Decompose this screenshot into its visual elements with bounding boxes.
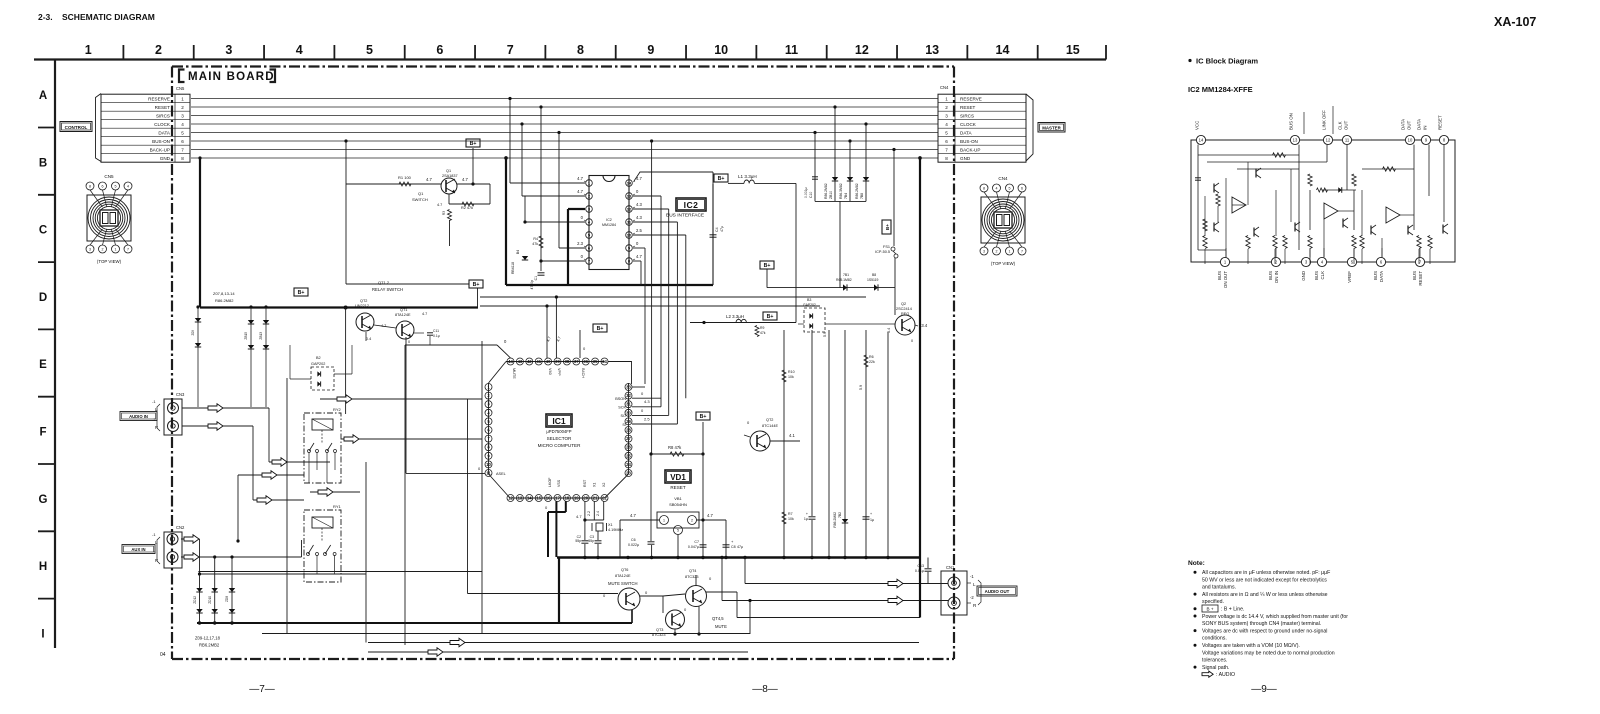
svg-text:R86.2M82: R86.2M82 [215, 298, 234, 303]
svg-text:OUT: OUT [1344, 120, 1349, 130]
svg-text:1: 1 [945, 96, 948, 101]
svg-text:2.2: 2.2 [587, 511, 591, 516]
svg-text:5.9: 5.9 [859, 385, 863, 390]
svg-text:: AUDIO: : AUDIO [1216, 672, 1235, 678]
svg-text:VD1: VD1 [670, 473, 686, 482]
svg-text:R3: R3 [442, 211, 446, 215]
svg-text:specified.: specified. [1202, 599, 1224, 605]
svg-text:8: 8 [945, 156, 948, 161]
svg-text:I: I [41, 628, 44, 640]
svg-text:21: 21 [593, 496, 598, 501]
svg-text:GND: GND [160, 156, 171, 161]
svg-text:SELECTOR: SELECTOR [547, 436, 572, 441]
svg-text:AUDIO OUT: AUDIO OUT [985, 589, 1010, 594]
svg-text:8TC323: 8TC323 [685, 575, 699, 579]
svg-text:14: 14 [527, 496, 532, 501]
svg-text:IN: IN [1423, 126, 1428, 130]
svg-text:RB4118: RB4118 [511, 262, 515, 274]
svg-text:B+: B+ [700, 414, 707, 420]
svg-text:47μ: 47μ [720, 226, 724, 232]
svg-text:—7—: —7— [249, 684, 275, 695]
svg-text:11: 11 [486, 471, 491, 476]
svg-text:SI: SI [622, 423, 626, 427]
svg-text:Voltage variations may be: Voltage variations may be noted due to n… [1202, 650, 1335, 656]
svg-text:IC2: IC2 [684, 200, 699, 210]
svg-text:DATA: DATA [1401, 119, 1406, 130]
svg-text:1: 1 [115, 247, 117, 251]
svg-text:R86.3M82: R86.3M82 [839, 183, 843, 199]
svg-text:CLK: CLK [1338, 121, 1343, 130]
svg-text:RESET: RESET [960, 105, 976, 110]
svg-text:3: 3 [983, 249, 985, 253]
svg-text:BUS-ON: BUS-ON [960, 139, 978, 144]
svg-text:MASTER: MASTER [1042, 126, 1061, 131]
svg-text:B8: B8 [872, 273, 876, 277]
svg-text:0: 0 [408, 340, 410, 344]
svg-text:4.7: 4.7 [437, 203, 442, 207]
svg-text:SIRCS: SIRCS [960, 113, 974, 118]
svg-text:20: 20 [583, 496, 588, 501]
svg-text:B: B [39, 157, 47, 169]
svg-text:RY2: RY2 [333, 407, 341, 412]
svg-text:2: 2 [996, 249, 998, 253]
svg-text:4.1: 4.1 [789, 433, 795, 438]
svg-text:Note:: Note: [1188, 560, 1205, 567]
svg-text:QT2: QT2 [360, 299, 367, 303]
svg-text:R8 47k: R8 47k [668, 445, 682, 450]
svg-text:BUS: BUS [1373, 271, 1378, 280]
svg-text:22k: 22k [869, 360, 875, 364]
svg-text:2: 2 [945, 105, 948, 110]
svg-text:—9—: —9— [1251, 684, 1277, 695]
svg-text:32: 32 [626, 393, 631, 398]
svg-text:+: + [870, 512, 872, 516]
svg-text:BUS INTERFACE: BUS INTERFACE [666, 213, 704, 219]
svg-text:0.1μ: 0.1μ [433, 334, 440, 338]
svg-text:CN4: CN4 [998, 176, 1008, 181]
svg-text:SCHEMATIC DIAGRAM: SCHEMATIC DIAGRAM [62, 12, 155, 22]
svg-text:10: 10 [627, 232, 632, 237]
svg-text:SCK: SCK [618, 406, 626, 410]
svg-text:22: 22 [602, 496, 607, 501]
svg-text:5: 5 [677, 529, 679, 533]
svg-text:RB6.2MB2: RB6.2MB2 [199, 643, 220, 648]
svg-text:ZB10: ZB10 [829, 191, 833, 199]
svg-text:RESET: RESET [1418, 271, 1423, 286]
svg-text:5: 5 [181, 130, 184, 135]
svg-text:RESET: RESET [670, 485, 686, 490]
svg-text:3: 3 [89, 247, 91, 251]
svg-text:SWITCH: SWITCH [412, 197, 428, 202]
svg-text:R2 47k: R2 47k [461, 206, 473, 210]
svg-text:IC Block Diagram: IC Block Diagram [1196, 57, 1258, 66]
svg-text:6: 6 [945, 139, 948, 144]
svg-text:(TOP VIEW): (TOP VIEW) [97, 259, 122, 264]
svg-text:tolerances.: tolerances. [1202, 658, 1227, 664]
svg-text:R10: R10 [788, 370, 795, 374]
svg-text:29: 29 [626, 419, 631, 424]
svg-text:39: 39 [555, 359, 560, 364]
svg-text:E: E [39, 359, 47, 371]
svg-text:33: 33 [626, 385, 631, 390]
svg-text:Signal path.: Signal path. [1202, 665, 1229, 671]
svg-text:3: 3 [945, 113, 948, 118]
svg-text:10k: 10k [788, 375, 794, 379]
svg-text:MUTE: MUTE [512, 368, 516, 379]
svg-text:5.9: 5.9 [823, 332, 827, 337]
svg-text:ICP-50.5: ICP-50.5 [875, 250, 890, 254]
svg-text:1μ: 1μ [804, 517, 808, 521]
svg-text:38: 38 [565, 359, 570, 364]
svg-text:BUS-ON: BUS-ON [152, 139, 170, 144]
svg-text:2.3: 2.3 [577, 241, 583, 246]
svg-text:L: L [973, 582, 976, 587]
svg-text:R86.2M82: R86.2M82 [824, 183, 828, 199]
svg-text:CLOCK: CLOCK [154, 122, 171, 127]
svg-text:8: 8 [181, 156, 184, 161]
svg-text:R7: R7 [788, 512, 793, 516]
svg-text:4.7: 4.7 [426, 177, 432, 182]
svg-text:4: 4 [296, 43, 303, 57]
svg-text:5: 5 [945, 130, 948, 135]
svg-text:5: 5 [366, 43, 373, 57]
svg-text:XA-107: XA-107 [1494, 15, 1536, 29]
svg-text:BSON: BSON [615, 397, 626, 401]
svg-text:QT1: QT1 [400, 308, 407, 312]
svg-text:C4: C4 [715, 227, 719, 232]
svg-text:4.3: 4.3 [644, 399, 650, 404]
svg-text:0.047μ: 0.047μ [688, 545, 699, 549]
svg-text:F: F [39, 427, 46, 439]
svg-text:2: 2 [102, 247, 104, 251]
svg-text:B+: B+ [767, 314, 774, 320]
svg-text:2: 2 [691, 519, 693, 523]
svg-text:B+: B+ [718, 176, 725, 182]
svg-text:C8: C8 [731, 545, 736, 549]
svg-text:B+: B+ [473, 282, 480, 288]
svg-text:0.001μ: 0.001μ [804, 188, 808, 198]
svg-text:B+: B+ [298, 290, 305, 296]
svg-text:C7: C7 [694, 540, 699, 544]
svg-text:37: 37 [574, 359, 579, 364]
svg-text:DATA: DATA [158, 130, 171, 135]
svg-text:R: R [155, 425, 158, 430]
svg-text:All capacitors are in μF: All capacitors are in μF unless otherwis… [1202, 570, 1330, 576]
svg-text:7B8: 7B8 [860, 193, 864, 199]
svg-text:1: 1 [85, 43, 92, 57]
svg-text:OUT: OUT [1407, 120, 1412, 130]
svg-text:2.5: 2.5 [636, 228, 642, 233]
svg-text:30: 30 [626, 410, 631, 415]
svg-text:C11: C11 [433, 329, 439, 333]
svg-text:4: 4 [127, 184, 129, 188]
svg-text:4.3: 4.3 [636, 215, 642, 220]
svg-text:DATA: DATA [1417, 119, 1422, 130]
svg-text:10: 10 [1408, 138, 1413, 143]
svg-text:CN2: CN2 [176, 525, 185, 530]
svg-text:RESET: RESET [1438, 115, 1443, 130]
svg-text:7: 7 [945, 147, 948, 152]
svg-text:CONTROL: CONTROL [65, 125, 88, 130]
svg-text:42: 42 [527, 359, 532, 364]
svg-text:(TOP VIEW): (TOP VIEW) [991, 261, 1016, 266]
svg-text:55p: 55p [588, 539, 594, 543]
svg-text:H: H [39, 561, 47, 573]
svg-text:4.3: 4.3 [636, 202, 642, 207]
svg-text:27: 27 [626, 436, 631, 441]
svg-text:36: 36 [583, 359, 588, 364]
svg-text:C13: C13 [917, 564, 924, 568]
svg-text:Q1: Q1 [418, 191, 424, 196]
svg-text:4.7: 4.7 [577, 176, 583, 181]
svg-text:Power voltage is dc 14.4 V, wh: Power voltage is dc 14.4 V, which suppli… [1202, 614, 1348, 620]
svg-text:BACK-UP: BACK-UP [960, 147, 980, 152]
svg-text:0.022μ: 0.022μ [628, 543, 639, 547]
svg-text:—8—: —8— [752, 684, 778, 695]
svg-text:R1 100: R1 100 [398, 175, 412, 180]
svg-text:8TA124E: 8TA124E [395, 313, 411, 317]
svg-text:ASEL: ASEL [496, 472, 506, 476]
svg-text:1S5119: 1S5119 [867, 278, 879, 282]
svg-text:ZD12: ZD12 [193, 596, 197, 604]
svg-text:4: 4 [945, 122, 948, 127]
svg-text:4.7: 4.7 [422, 312, 427, 316]
svg-text:31: 31 [626, 402, 631, 407]
svg-text:CN3: CN3 [176, 392, 185, 397]
svg-text:7: 7 [181, 147, 184, 152]
svg-text:2: 2 [181, 105, 184, 110]
svg-text:8: 8 [89, 184, 91, 188]
svg-text:BACK-UP: BACK-UP [150, 147, 170, 152]
svg-text:40: 40 [546, 359, 551, 364]
svg-text:All resistors are in Ω an: All resistors are in Ω and ¼ W or less u… [1202, 592, 1328, 598]
svg-text:14: 14 [996, 43, 1010, 57]
svg-text:6: 6 [181, 139, 184, 144]
svg-text:4.7: 4.7 [462, 177, 468, 182]
svg-text:2-3.: 2-3. [38, 12, 53, 22]
svg-text:Q2: Q2 [901, 302, 906, 306]
svg-text:12: 12 [627, 206, 632, 211]
svg-text:AUDIO IN: AUDIO IN [129, 414, 148, 419]
svg-text:SB054HN: SB054HN [669, 502, 687, 507]
svg-text:1: 1 [663, 519, 665, 523]
svg-text:SO: SO [621, 414, 627, 418]
svg-text:17: 17 [555, 496, 560, 501]
svg-text:55p: 55p [575, 539, 581, 543]
svg-text:V40: V40 [548, 368, 552, 375]
svg-text:VB1: VB1 [674, 496, 682, 501]
svg-text:1: 1 [181, 96, 184, 101]
svg-text:Voltages are dc with respe: Voltages are dc with respect to ground u… [1202, 628, 1327, 634]
svg-text:B3: B3 [807, 298, 811, 302]
svg-text:RESERVE: RESERVE [960, 96, 982, 101]
svg-text:μPD75004FP: μPD75004FP [546, 429, 571, 434]
svg-text:MAIN BOARD: MAIN BOARD [188, 71, 275, 83]
svg-text:2: 2 [155, 43, 162, 57]
svg-text:R4: R4 [533, 237, 538, 241]
svg-text:1μ: 1μ [870, 518, 874, 522]
svg-text:Z09: Z09 [191, 330, 195, 336]
svg-text:4.7: 4.7 [636, 254, 642, 259]
svg-text:CN5: CN5 [104, 174, 114, 179]
svg-text:13: 13 [627, 193, 632, 198]
svg-text:7: 7 [507, 43, 514, 57]
svg-text:8: 8 [983, 186, 985, 190]
svg-text:CLK: CLK [1320, 271, 1325, 280]
svg-text:47k: 47k [760, 331, 766, 335]
svg-text:X1: X1 [592, 483, 596, 487]
svg-text:B+: B+ [470, 141, 477, 147]
svg-text:DATA: DATA [960, 130, 973, 135]
svg-text:2.4: 2.4 [596, 511, 600, 516]
svg-text:VPP: VPP [557, 368, 561, 376]
svg-text:CN1: CN1 [946, 565, 955, 570]
svg-text:conditions.: conditions. [1202, 636, 1227, 642]
svg-text:47k: 47k [532, 242, 538, 246]
svg-text:QT4,5: QT4,5 [712, 616, 724, 621]
svg-text:IC2 MM1284-XFFE: IC2 MM1284-XFFE [1188, 85, 1253, 94]
svg-text:QT4: QT4 [689, 569, 696, 573]
svg-text:12: 12 [508, 496, 513, 501]
svg-text:10: 10 [714, 43, 728, 57]
svg-text:0.4: 0.4 [366, 337, 371, 341]
svg-text:MICRO COMPUTER: MICRO COMPUTER [538, 443, 582, 448]
svg-text:C6: C6 [631, 538, 636, 542]
svg-text:CN4: CN4 [940, 85, 949, 90]
svg-text:7: 7 [127, 247, 129, 251]
svg-text:L2 3.3μH: L2 3.3μH [726, 314, 744, 319]
svg-text:C1: C1 [534, 276, 538, 280]
svg-text:MUTE: MUTE [715, 624, 727, 629]
svg-text:R65.1M82: R65.1M82 [836, 278, 852, 282]
svg-text:Z09-12,17,18: Z09-12,17,18 [195, 636, 221, 641]
svg-text:R86.2M82: R86.2M82 [833, 512, 837, 528]
svg-text:BUS ON: BUS ON [1289, 113, 1294, 130]
svg-text:7: 7 [1021, 249, 1023, 253]
svg-text:DATA: DATA [1379, 271, 1384, 282]
svg-text:4.7: 4.7 [576, 514, 582, 519]
svg-text:16: 16 [546, 496, 551, 501]
svg-text:15: 15 [536, 496, 541, 501]
svg-text:UN2212: UN2212 [355, 304, 369, 308]
svg-text:25: 25 [626, 453, 631, 458]
svg-text:X2: X2 [602, 483, 606, 487]
svg-text:SIRCS: SIRCS [156, 113, 170, 118]
svg-text:3: 3 [225, 43, 232, 57]
svg-text:50 WV or less are not in: 50 WV or less are not indicated except f… [1202, 577, 1327, 583]
svg-text:BUS: BUS [1314, 271, 1319, 280]
svg-text:R: R [155, 558, 158, 563]
svg-text:7B2: 7B2 [838, 512, 842, 518]
svg-text:41: 41 [536, 359, 541, 364]
svg-text:04: 04 [160, 652, 166, 658]
svg-text:and tantalums.: and tantalums. [1202, 585, 1236, 591]
svg-text:3: 3 [181, 113, 184, 118]
svg-text:B+: B+ [597, 326, 604, 332]
svg-text:13: 13 [1293, 138, 1298, 143]
svg-text:10: 10 [486, 462, 491, 467]
svg-text:4.7: 4.7 [577, 189, 583, 194]
svg-text:4.7: 4.7 [630, 513, 636, 518]
svg-text:14: 14 [627, 180, 632, 185]
svg-text:14: 14 [1199, 138, 1204, 143]
svg-text:L1 3.3μH: L1 3.3μH [738, 174, 757, 179]
svg-text:D: D [39, 292, 47, 304]
svg-text:2SC2414: 2SC2414 [896, 307, 912, 311]
svg-text:RST: RST [583, 479, 587, 487]
svg-text:34: 34 [602, 359, 607, 364]
svg-text:4.7: 4.7 [707, 513, 713, 518]
svg-text:19: 19 [574, 496, 579, 501]
svg-text:QT6: QT6 [621, 568, 628, 572]
svg-text:RY1: RY1 [333, 504, 341, 509]
svg-text:8: 8 [577, 43, 584, 57]
svg-text:10k: 10k [788, 517, 794, 521]
svg-text:B+: B+ [885, 224, 890, 230]
svg-text:1: 1 [1009, 249, 1011, 253]
svg-text:RELAY SWITCH: RELAY SWITCH [372, 287, 403, 292]
svg-text:7B1: 7B1 [843, 273, 849, 277]
svg-text:C: C [39, 225, 47, 237]
svg-text:18: 18 [565, 496, 570, 501]
svg-text:13: 13 [518, 496, 523, 501]
svg-text:47μ: 47μ [737, 545, 743, 549]
svg-text:4: 4 [996, 186, 998, 190]
svg-text:VCC: VCC [1195, 121, 1200, 130]
svg-text:B4: B4 [516, 250, 520, 254]
svg-text:CLOCK: CLOCK [960, 122, 977, 127]
svg-text:RESET: RESET [155, 105, 171, 110]
svg-text:IC2: IC2 [606, 218, 612, 222]
svg-text:FS1: FS1 [883, 245, 890, 249]
svg-text:BUS: BUS [1268, 271, 1273, 280]
svg-text:CN5: CN5 [176, 86, 185, 91]
svg-text:15: 15 [1066, 43, 1080, 57]
svg-text:REG: REG [901, 312, 909, 316]
svg-text:QT2: QT2 [766, 418, 773, 422]
svg-text:AUX IN: AUX IN [131, 547, 145, 552]
svg-text:BUS: BUS [1412, 271, 1417, 280]
svg-text:ON OUT: ON OUT [1223, 271, 1228, 288]
svg-text:ZB13: ZB13 [259, 332, 263, 340]
svg-text:Z07,8,13-14: Z07,8,13-14 [213, 291, 235, 296]
svg-text:GND: GND [960, 156, 971, 161]
svg-text:: B + Line.: : B + Line. [1221, 607, 1245, 613]
svg-text:MUTE SWITCH: MUTE SWITCH [608, 581, 638, 586]
svg-text:SONY BUS system) through CN4 (: SONY BUS system) through CN4 (master) te… [1202, 621, 1321, 627]
svg-text:28: 28 [626, 428, 631, 433]
svg-text:11: 11 [1345, 138, 1350, 143]
svg-text:ZD8: ZD8 [225, 596, 229, 602]
svg-text:ON IN: ON IN [1274, 271, 1279, 283]
svg-text:R86.2M82: R86.2M82 [855, 183, 859, 199]
svg-text:BUS: BUS [1217, 271, 1222, 280]
svg-text:ZD10: ZD10 [208, 596, 212, 604]
svg-text:C10: C10 [809, 192, 813, 198]
svg-text:12: 12 [1326, 138, 1331, 143]
svg-text:6: 6 [102, 184, 104, 188]
svg-text:R6: R6 [869, 355, 874, 359]
svg-text:7B4: 7B4 [844, 193, 848, 199]
svg-text:23: 23 [626, 471, 631, 476]
svg-text:QT3: QT3 [656, 628, 663, 632]
svg-text:24: 24 [626, 462, 631, 467]
svg-text:6: 6 [1021, 186, 1023, 190]
svg-text:0: 0 [911, 339, 913, 343]
svg-text:X1: X1 [608, 523, 613, 527]
svg-text:QT1,2: QT1,2 [378, 280, 390, 285]
svg-text:+: + [806, 512, 808, 516]
